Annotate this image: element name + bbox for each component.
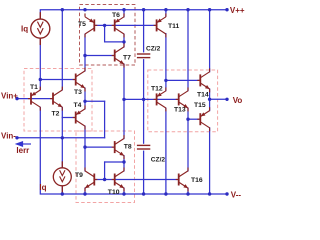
svg-text:T4: T4 — [74, 102, 82, 109]
svg-text:T11: T11 — [168, 23, 180, 30]
svg-text:T13: T13 — [174, 107, 186, 114]
svg-text:CZ/2: CZ/2 — [151, 157, 166, 164]
svg-text:T5: T5 — [78, 21, 86, 28]
svg-text:T16: T16 — [191, 177, 203, 184]
svg-text:Ierr: Ierr — [16, 146, 29, 155]
svg-text:Iq: Iq — [21, 25, 28, 34]
svg-text:T1: T1 — [30, 84, 38, 91]
svg-text:CZ/2: CZ/2 — [146, 46, 161, 53]
svg-text:T12: T12 — [151, 86, 163, 93]
svg-text:T6: T6 — [112, 12, 120, 19]
svg-text:Vin+: Vin+ — [1, 92, 18, 101]
svg-text:V--: V-- — [231, 191, 242, 200]
svg-text:T3: T3 — [74, 89, 82, 96]
svg-text:T9: T9 — [75, 172, 83, 179]
svg-text:T7: T7 — [123, 55, 131, 62]
svg-text:T14: T14 — [197, 92, 209, 99]
svg-text:T8: T8 — [124, 144, 132, 151]
svg-text:Vo: Vo — [233, 96, 243, 105]
svg-text:V++: V++ — [230, 6, 245, 15]
svg-text:T10: T10 — [108, 189, 120, 196]
svg-text:Iq: Iq — [39, 183, 46, 192]
svg-text:Vin-: Vin- — [1, 132, 16, 141]
svg-text:T2: T2 — [52, 111, 60, 118]
svg-text:T15: T15 — [194, 102, 206, 109]
